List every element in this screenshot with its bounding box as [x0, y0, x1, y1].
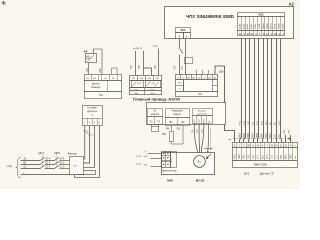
- svg-text:811: 811: [264, 133, 268, 138]
- svg-text:(0.4): (0.4): [153, 46, 158, 48]
- svg-text:Датчик "Z": Датчик "Z": [260, 171, 274, 175]
- svg-text:Д2: Д2: [214, 78, 216, 80]
- svg-text:С1.4: С1.4: [45, 167, 51, 169]
- svg-text:Х54: Х54: [181, 28, 186, 32]
- svg-text:DC: DC: [153, 111, 157, 113]
- svg-text:+: +: [145, 150, 147, 154]
- svg-text:W/Т3: W/Т3: [204, 119, 206, 123]
- svg-text:А2: А2: [289, 2, 295, 7]
- svg-text:Д1: Д1: [208, 78, 210, 80]
- svg-text:727: 727: [180, 65, 184, 70]
- svg-text:Тип: Тип: [99, 94, 104, 97]
- svg-text:ЧПУ SINUMERIK 808D: ЧПУ SINUMERIK 808D: [186, 14, 234, 19]
- svg-text:UB1: UB1: [239, 153, 241, 158]
- svg-text:Тормозной: Тормозной: [171, 110, 183, 113]
- svg-text:В+1: В+1: [262, 154, 264, 159]
- svg-text:привода: привода: [91, 87, 101, 89]
- svg-text:М3 (S): М3 (S): [196, 179, 205, 183]
- svg-text:А4: А4: [84, 50, 88, 54]
- svg-text:U51: U51: [244, 154, 246, 159]
- svg-text:С1.6: С1.6: [60, 167, 66, 169]
- svg-text:В-В4: В-В4: [251, 23, 253, 29]
- svg-text:Сетевой: Сетевой: [88, 107, 98, 110]
- svg-text:Фильтр: Фильтр: [68, 151, 78, 155]
- svg-text:807: 807: [251, 133, 255, 138]
- svg-text:0V1: 0V1: [248, 154, 250, 159]
- svg-text:805: 805: [242, 133, 246, 138]
- svg-text:700: 700: [85, 68, 89, 73]
- svg-text:800: 800: [98, 68, 102, 73]
- svg-text:720: 720: [172, 65, 176, 70]
- svg-text:М01: М01: [286, 153, 288, 158]
- svg-text:14: 14: [266, 32, 269, 36]
- svg-text:UA1: UA1: [233, 153, 236, 158]
- svg-text:(1.3): (1.3): [137, 156, 142, 158]
- svg-text:Т1: Т1: [177, 78, 179, 80]
- svg-text:Электро-: Электро-: [197, 111, 206, 113]
- svg-text:ПЕ1: ПЕ1: [290, 153, 292, 158]
- svg-text:М1: М1: [187, 78, 190, 80]
- svg-text:0V: 0V: [277, 134, 281, 137]
- svg-text:10: 10: [239, 32, 242, 36]
- svg-text:U/Т1: U/Т1: [194, 119, 196, 123]
- svg-text:V/Т2: V/Т2: [199, 119, 201, 122]
- svg-text:НС1: НС1: [239, 120, 241, 125]
- svg-text:714: 714: [170, 159, 173, 164]
- svg-text:L1: L1: [74, 164, 78, 168]
- svg-text:БУ1: БУ1: [244, 171, 250, 175]
- svg-text:812: 812: [268, 133, 272, 138]
- svg-text:Т2: Т2: [182, 78, 184, 80]
- svg-text:реактор: реактор: [151, 114, 160, 116]
- svg-text:КМ3: КМ3: [54, 151, 60, 155]
- svg-text:Тип: Тип: [198, 93, 203, 96]
- svg-text:В1.4: В1.4: [45, 163, 50, 165]
- svg-text:В50: В50: [219, 70, 224, 73]
- svg-text:5VВ8: 5VВ8: [282, 23, 284, 29]
- svg-text:810: 810: [259, 133, 263, 138]
- svg-text:5V: 5V: [273, 134, 277, 137]
- svg-text:модуль: модуль: [173, 114, 182, 116]
- svg-text:710: 710: [153, 65, 157, 70]
- svg-text:М2: М2: [193, 78, 196, 80]
- svg-text:Главный привод -А1000: Главный привод -А1000: [133, 98, 180, 102]
- svg-text:Z+1: Z+1: [272, 154, 274, 159]
- svg-text:806: 806: [246, 133, 250, 138]
- svg-text:С1: С1: [198, 78, 200, 80]
- svg-text:+5V: +5V: [248, 121, 250, 125]
- svg-text:С2: С2: [203, 78, 205, 80]
- svg-text:QF3: QF3: [38, 151, 44, 155]
- svg-text:А-В3: А-В3: [246, 23, 249, 29]
- svg-text:710: 710: [129, 65, 133, 70]
- svg-text:700: 700: [137, 65, 141, 70]
- svg-text:А1.6: А1.6: [60, 158, 65, 161]
- svg-text:А1.4: А1.4: [45, 158, 50, 161]
- svg-text:А+1: А+1: [252, 154, 255, 159]
- svg-text:+24В: +24В: [259, 23, 261, 29]
- svg-text:РЕ: РЕ: [209, 121, 211, 123]
- svg-text:20: 20: [274, 32, 277, 36]
- svg-text:А+В1: А+В1: [238, 23, 241, 29]
- svg-text:5V1: 5V1: [281, 154, 283, 159]
- svg-text:В+В2: В+В2: [243, 23, 245, 29]
- svg-text:(1.5): (1.5): [7, 164, 12, 168]
- svg-text:пф: пф: [228, 138, 231, 141]
- svg-text:Х21: Х21: [258, 13, 264, 17]
- svg-text:801: 801: [237, 133, 241, 138]
- svg-text:Вентилятор: Вентилятор: [163, 169, 178, 173]
- svg-text:дроссель: дроссель: [87, 111, 98, 113]
- svg-text:ВМР-1500: ВМР-1500: [254, 163, 268, 167]
- svg-text:М42: М42: [167, 179, 173, 183]
- svg-text:(1.3): (1.3): [137, 164, 142, 166]
- svg-text:809: 809: [255, 133, 259, 138]
- svg-text:Датчик: Датчик: [92, 83, 100, 85]
- svg-text:(0.4)(1.7): (0.4)(1.7): [133, 48, 142, 50]
- svg-text:3~: 3~: [198, 160, 202, 164]
- svg-text:0VВ5: 0VВ5: [255, 23, 257, 29]
- svg-text:выс: выс: [295, 156, 297, 160]
- svg-text:В1.6: В1.6: [60, 163, 65, 165]
- svg-text:МВ82: МВ82: [279, 23, 281, 29]
